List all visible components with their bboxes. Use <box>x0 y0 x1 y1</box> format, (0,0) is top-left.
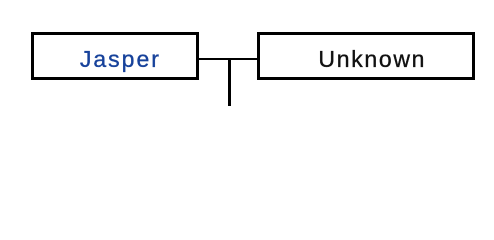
node: Jasper box <box>31 32 199 80</box>
node: Unknown label <box>318 48 426 71</box>
wire: horizontal connector between Jasper and Unknown boxes <box>199 58 258 60</box>
node: Jasper label (blue link) <box>80 48 161 71</box>
node: Unknown box <box>257 32 474 80</box>
wire: vertical drop line to children <box>228 58 230 106</box>
